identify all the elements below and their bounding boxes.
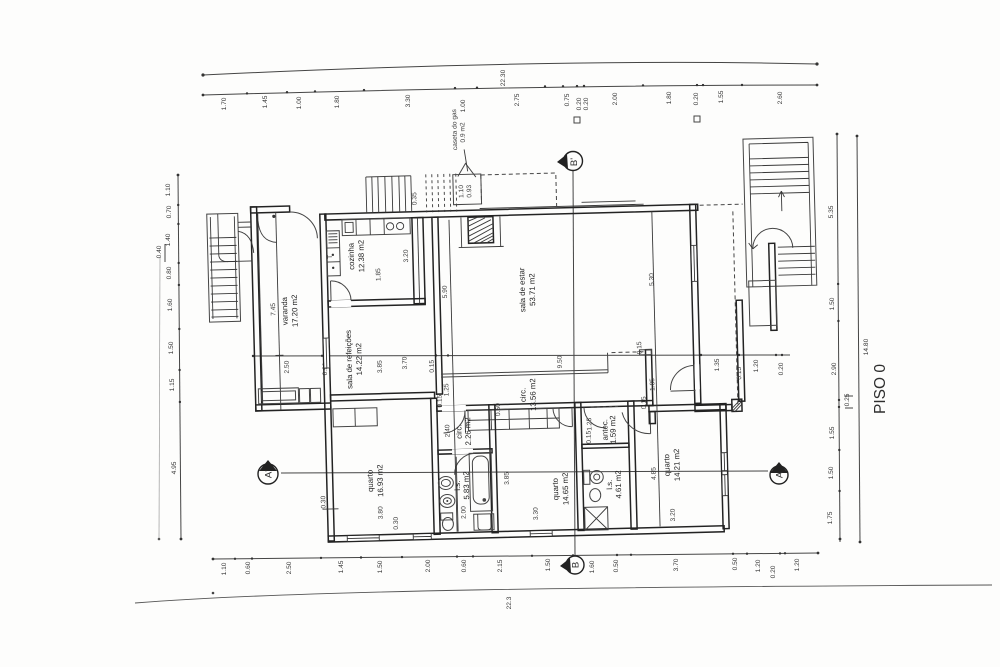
- svg-text:B: B: [571, 562, 582, 568]
- marker A': [258, 460, 278, 484]
- bottom dimension line: [213, 553, 818, 559]
- svg-text:1.35: 1.35: [714, 358, 721, 371]
- wall ls4.61 / quarto14.21: [628, 401, 637, 529]
- marker B: [560, 556, 584, 574]
- svg-text:1.45: 1.45: [262, 95, 269, 108]
- svg-text:3.20: 3.20: [670, 508, 677, 521]
- top tick dots: [202, 84, 819, 97]
- svg-text:1.55: 1.55: [829, 426, 836, 439]
- svg-text:1.40: 1.40: [165, 233, 172, 246]
- svg-text:1.10: 1.10: [458, 185, 465, 198]
- svg-text:2.26 m2: 2.26 m2: [463, 417, 473, 445]
- svg-text:1.00: 1.00: [296, 96, 303, 109]
- svg-text:5.35: 5.35: [828, 205, 835, 218]
- svg-text:1.10: 1.10: [221, 562, 228, 575]
- svg-text:14.65 m2: 14.65 m2: [561, 472, 571, 505]
- window in right wall living room: [691, 245, 697, 281]
- windows in bottom wall: [324, 338, 330, 368]
- 0.40 offset bracket: [164, 244, 166, 262]
- kitchen bottom wall: [328, 298, 425, 307]
- door to bedroom 14.65: [553, 408, 572, 427]
- svg-text:3.70: 3.70: [402, 356, 409, 369]
- bath top partition + door: [438, 449, 492, 454]
- terrace pillar hatched: [732, 399, 742, 411]
- svg-text:2.90: 2.90: [831, 362, 838, 375]
- svg-text:5.83 m2: 5.83 m2: [462, 471, 472, 499]
- svg-text:0.93: 0.93: [466, 184, 473, 197]
- svg-text:0.20: 0.20: [693, 92, 700, 105]
- antec partition: [582, 443, 629, 448]
- svg-text:0.15: 0.15: [429, 359, 436, 372]
- wall top: [325, 204, 698, 220]
- svg-text:cozinha: cozinha: [347, 242, 357, 270]
- exterior stair top-right: [743, 137, 817, 287]
- wardrobe quarto 16.93: [333, 408, 377, 427]
- svg-text:0.60: 0.60: [245, 561, 252, 574]
- svg-text:sala de estar: sala de estar: [517, 267, 527, 312]
- entrance steps top: [366, 176, 411, 177]
- svg-text:2.15: 2.15: [497, 559, 504, 572]
- svg-text:PISO 0: PISO 0: [872, 364, 889, 414]
- svg-text:14.21 m2: 14.21 m2: [672, 449, 682, 482]
- gas closet: [453, 174, 482, 205]
- svg-text:0.35: 0.35: [411, 192, 418, 205]
- svg-text:1.25: 1.25: [443, 383, 450, 396]
- svg-text:2.00: 2.00: [612, 92, 619, 105]
- kitchen counters: [326, 231, 340, 276]
- wall right (living room): [690, 204, 701, 403]
- svg-text:1.20: 1.20: [753, 359, 760, 372]
- svg-text:2.40: 2.40: [444, 424, 451, 437]
- svg-text:0.15: 0.15: [636, 341, 643, 354]
- top boundary line: [203, 62, 817, 75]
- svg-text:1.75: 1.75: [827, 511, 834, 524]
- svg-text:A: A: [775, 471, 786, 478]
- wall left: [320, 214, 335, 541]
- svg-text:3.80: 3.80: [377, 506, 384, 519]
- svg-text:1.59 m2: 1.59 m2: [608, 415, 618, 443]
- veranda dim line: [276, 212, 281, 410]
- svg-text:0.60: 0.60: [461, 559, 468, 572]
- svg-text:sala de refeições: sala de refeições: [344, 330, 355, 389]
- svg-text:0.25: 0.25: [844, 393, 851, 406]
- bottom site boundary line: [135, 585, 992, 603]
- svg-text:2.00: 2.00: [460, 506, 467, 519]
- svg-text:0.15: 0.15: [437, 394, 444, 407]
- svg-text:0.15: 0.15: [736, 366, 743, 379]
- svg-text:l.s.: l.s.: [453, 481, 462, 491]
- svg-text:0.50: 0.50: [613, 559, 620, 572]
- svg-text:0.9 m2: 0.9 m2: [459, 122, 467, 143]
- svg-text:1.80: 1.80: [666, 91, 673, 104]
- svg-text:quarto: quarto: [365, 469, 375, 492]
- svg-text:3.70: 3.70: [673, 558, 680, 571]
- svg-text:quarto: quarto: [551, 477, 561, 500]
- window line above top wall (living room): [582, 201, 636, 202]
- svg-text:1.50: 1.50: [828, 466, 835, 479]
- left dimension line: [178, 175, 181, 539]
- veranda bottom wall: [256, 403, 331, 411]
- svg-text:0.15: 0.15: [586, 430, 593, 443]
- faint secondary left line: [159, 258, 160, 539]
- wall bath / quarto14.65: [489, 405, 498, 533]
- svg-text:3.20: 3.20: [403, 249, 410, 262]
- wall bottom: [328, 526, 724, 542]
- svg-text:0.80: 0.80: [166, 266, 173, 279]
- svg-text:4.61 m2: 4.61 m2: [614, 470, 624, 498]
- bath 4.61 fixtures: [590, 470, 603, 483]
- svg-text:1.55: 1.55: [718, 90, 725, 103]
- svg-text:quarto: quarto: [662, 453, 672, 476]
- svg-text:12.38 m2: 12.38 m2: [356, 240, 366, 273]
- svg-text:13.56 m2: 13.56 m2: [528, 378, 538, 411]
- svg-text:0.20: 0.20: [770, 565, 777, 578]
- svg-text:circ.: circ.: [454, 424, 463, 439]
- svg-text:4.95: 4.95: [171, 461, 178, 474]
- svg-text:A': A': [264, 470, 275, 478]
- veranda entry door arc: [290, 211, 318, 239]
- svg-text:1.15: 1.15: [169, 378, 176, 391]
- svg-text:2.00: 2.00: [425, 559, 432, 572]
- site boundary and dimension lines (absolute coords): [135, 62, 992, 609]
- svg-text:1.85: 1.85: [649, 378, 656, 391]
- svg-text:1.00: 1.00: [460, 99, 467, 112]
- terrace bottom wall: [695, 404, 732, 411]
- svg-text:caseta do gas: caseta do gas: [451, 108, 459, 150]
- dashed upper stair: [426, 174, 457, 213]
- svg-text:0.15: 0.15: [641, 396, 648, 409]
- terrace right wall: [736, 300, 745, 401]
- veranda planter bench: [258, 388, 298, 404]
- svg-text:2.75: 2.75: [514, 93, 521, 106]
- svg-text:1.70: 1.70: [221, 97, 228, 110]
- exterior stair left: [207, 213, 241, 322]
- svg-text:5.30: 5.30: [648, 273, 655, 286]
- svg-text:5.90: 5.90: [442, 285, 449, 298]
- kitchen right wall: [412, 217, 425, 303]
- svg-text:16.93 m2: 16.93 m2: [375, 464, 385, 497]
- living room west wall: [432, 217, 443, 394]
- dining room bottom wall: [331, 392, 435, 401]
- house plan (rotated group): [204, 99, 823, 545]
- living room bottom boundary: [441, 370, 608, 377]
- svg-text:0.20: 0.20: [576, 97, 583, 110]
- bath 5.83 fixtures: [438, 476, 453, 489]
- svg-text:2.50: 2.50: [284, 360, 291, 373]
- top dimension tick line: [203, 85, 817, 95]
- svg-text:0.50: 0.50: [732, 557, 739, 570]
- wall stub right of corridor: [645, 350, 652, 406]
- svg-text:0.30: 0.30: [320, 495, 327, 508]
- svg-text:0.20: 0.20: [583, 97, 590, 110]
- svg-text:0.75: 0.75: [564, 93, 571, 106]
- small squares below top line: [574, 117, 580, 123]
- svg-text:4.85: 4.85: [651, 467, 658, 480]
- dashed line top-right corner to stair: [700, 204, 743, 205]
- section line A-A': [281, 471, 768, 473]
- svg-text:1.60: 1.60: [167, 298, 174, 311]
- svg-text:14.80: 14.80: [863, 338, 870, 355]
- svg-text:22.30: 22.30: [500, 69, 507, 86]
- svg-text:0.30: 0.30: [393, 516, 400, 529]
- veranda inner edge line: [258, 213, 263, 405]
- svg-text:T: T: [327, 255, 334, 259]
- corridor bottom wall: [437, 401, 653, 412]
- svg-text:1.50: 1.50: [377, 560, 384, 573]
- wall top of bedroom 14.21: [649, 404, 726, 412]
- svg-text:B': B': [569, 158, 580, 166]
- veranda top wall: [251, 206, 290, 213]
- svg-text:1.20: 1.20: [794, 558, 801, 571]
- svg-text:3.30: 3.30: [533, 507, 540, 520]
- svg-text:2.50: 2.50: [286, 561, 293, 574]
- door to bedroom 16.93: [442, 405, 466, 412]
- marker B': [557, 152, 583, 171]
- svg-text:1.25: 1.25: [586, 417, 593, 430]
- svg-text:0.20: 0.20: [778, 362, 785, 375]
- interior dim labels: [269, 240, 747, 532]
- marker A: [770, 462, 788, 484]
- svg-text:0.70: 0.70: [166, 205, 173, 218]
- svg-text:1.50: 1.50: [829, 297, 836, 310]
- svg-text:1.20: 1.20: [755, 559, 762, 572]
- interior dimension lines: [449, 220, 457, 532]
- section line B-B': [573, 171, 575, 555]
- svg-text:1.45: 1.45: [338, 560, 345, 573]
- wall right lower (bedroom): [720, 404, 729, 529]
- svg-text:1.80: 1.80: [334, 95, 341, 108]
- bedroom 14.21 door: [622, 412, 651, 435]
- veranda left wall: [251, 207, 262, 411]
- svg-text:1.10: 1.10: [165, 183, 172, 196]
- svg-text:1.50: 1.50: [545, 558, 552, 571]
- svg-text:1.60: 1.60: [589, 560, 596, 573]
- fireplace: [468, 217, 494, 244]
- svg-text:1.85: 1.85: [375, 268, 382, 281]
- top dimension labels: [221, 69, 784, 112]
- mid-right dimension line y355: [253, 355, 790, 356]
- svg-text:0.50: 0.50: [495, 403, 502, 416]
- svg-text:17.20 m2: 17.20 m2: [290, 295, 300, 328]
- svg-text:1.50: 1.50: [168, 341, 175, 354]
- svg-text:22.3: 22.3: [506, 596, 513, 609]
- svg-text:53.71 m2: 53.71 m2: [527, 273, 537, 306]
- wall quarto16.93 / bath: [431, 398, 441, 534]
- pergola dashed: [481, 173, 557, 209]
- svg-text:2.60: 2.60: [777, 91, 784, 104]
- svg-text:3.85: 3.85: [504, 472, 511, 485]
- closets under corridor: [468, 408, 559, 430]
- svg-text:7.45: 7.45: [270, 303, 277, 316]
- svg-text:14.22 m2: 14.22 m2: [354, 343, 364, 376]
- svg-text:circ.: circ.: [518, 388, 527, 403]
- terrace door arc: [694, 364, 699, 389]
- svg-text:l.s.: l.s.: [605, 480, 614, 490]
- svg-text:9.50: 9.50: [557, 355, 564, 368]
- wall quarto14.65 / ls4.61: [575, 402, 584, 530]
- room labels: [278, 232, 682, 513]
- svg-text:3.85: 3.85: [377, 360, 384, 373]
- right dimension lines: [837, 134, 840, 542]
- svg-text:0.40: 0.40: [156, 245, 163, 258]
- svg-text:3.30: 3.30: [405, 94, 412, 107]
- svg-text:varanda: varanda: [280, 296, 290, 325]
- veranda NW door arc: [258, 220, 277, 242]
